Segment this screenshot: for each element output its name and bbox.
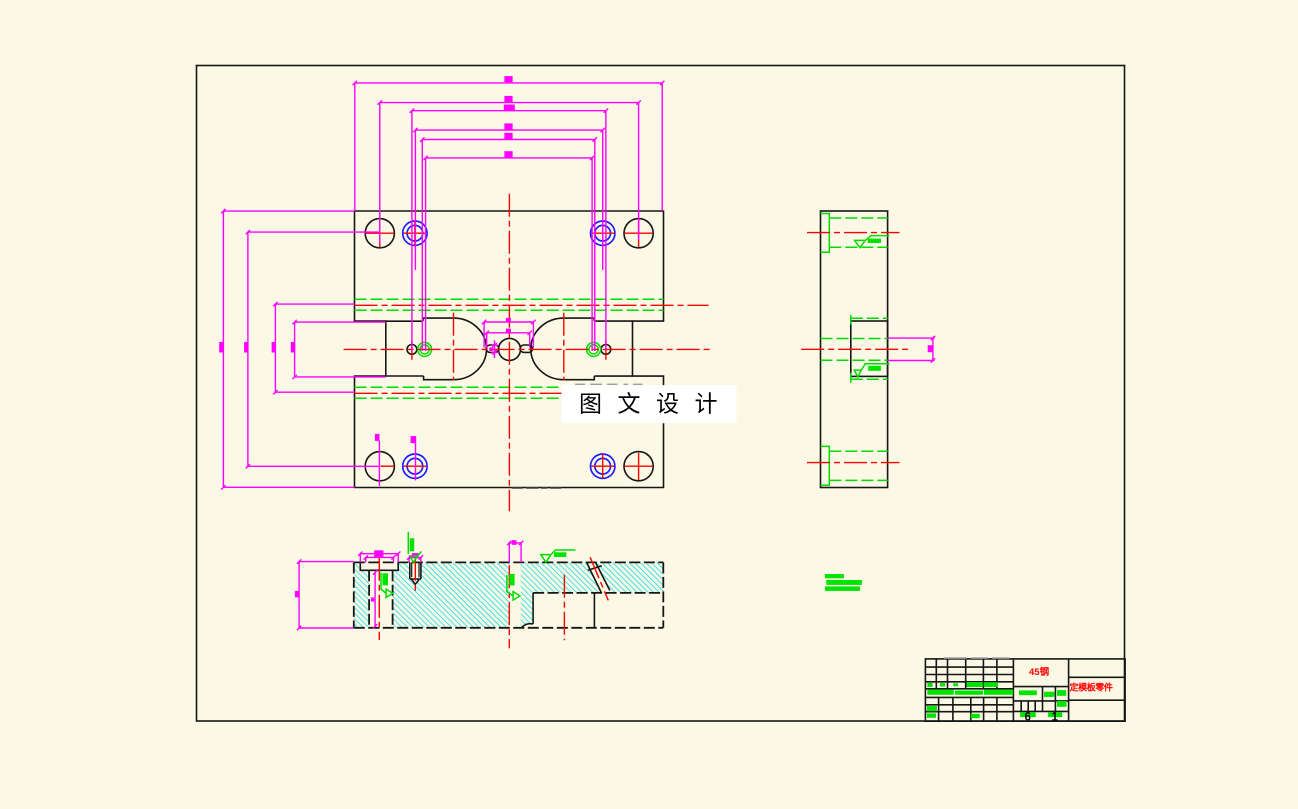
svg-text:1: 1 (1052, 712, 1059, 724)
svg-text:定模板零件: 定模板零件 (1069, 681, 1113, 692)
svg-text:6: 6 (1025, 712, 1031, 724)
svg-text:45钢: 45钢 (1029, 666, 1050, 678)
svg-text:图文设计: 图文设计 (579, 391, 733, 416)
